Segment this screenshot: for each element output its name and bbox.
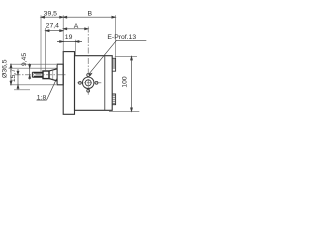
leader 1:8 [47,79,57,100]
svg-text:9,45: 9,45 [21,53,28,66]
dimension 100 line [131,56,133,111]
extension line y=64.2 (boss top) [10,63,56,65]
rear cover joint line [104,56,106,111]
extension line x=75.4 (19) [74,40,76,55]
centerline port horizontal [77,82,102,84]
svg-text:39,5: 39,5 [44,11,57,18]
dimension 15,7 line with outside arrows [17,69,19,90]
shaft washer/nut [43,71,49,79]
extension line x=115.4 (B) [114,15,116,58]
svg-text:100: 100 [122,76,129,88]
shaft taper 1:8 [49,69,57,81]
svg-text:A: A [74,23,79,30]
dimension 9,45 line with outside arrows [29,64,31,80]
leader E-Prof.13 [89,40,147,74]
port bolt hole top [87,74,90,77]
extension line x=41 (39,5) [40,15,42,71]
port bolt hole right [95,81,98,84]
port bolt hole bottom [87,89,90,92]
extension line y=111.4 (100 bottom) [109,110,139,112]
extension line y=89.8 (15,7 bottom tail) [14,89,30,91]
top-right plug [112,58,115,71]
extension line x=45.5 (27,4) [45,28,47,70]
dimension 39,5 line [41,16,63,18]
centerline shaft axis [15,74,67,76]
flange plate outline [63,52,74,115]
svg-text:Ø36,5: Ø36,5 [2,59,9,78]
pump body outline [75,56,113,111]
taper detail lines [52,70,54,80]
extension line x=63.2 (flange face) [62,15,64,51]
dimension A line [63,28,88,30]
svg-text:27,4: 27,4 [46,22,59,29]
svg-text:1:8: 1:8 [37,95,47,102]
extension line y=56.4 (100 top) [115,55,137,57]
shaft threaded end [32,72,43,77]
svg-text:15,7: 15,7 [10,69,17,82]
port bolt hole left [78,81,81,84]
svg-text:19: 19 [65,34,73,41]
dimension B line [63,16,115,18]
port outer circle [82,77,94,89]
extension line y=68.2 (shaft taper top) [9,67,58,69]
port inner circle [85,80,91,86]
bottom-right plug [112,94,115,105]
centerline port vertical / A extension [87,27,89,95]
dimension 27,4 line [46,30,64,32]
svg-text:E-Prof.13: E-Prof.13 [107,34,136,41]
svg-text:B: B [88,10,93,17]
dimension O36,5 line [10,64,12,85]
dimension 19 line with outside arrows [57,41,82,43]
shaft boss (seal carrier) [57,64,63,85]
extension line y=84.8 (boss bottom) [10,84,56,86]
